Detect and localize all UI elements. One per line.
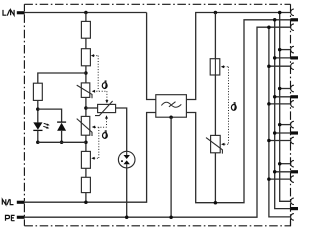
wire contact group D L [280,124,291,126]
label PE [6,215,15,220]
wire fuse to V4 [214,75,216,135]
wire V3 to spark gap [116,108,127,151]
socket contact A1 L (arc) [291,9,294,16]
plug contact E2 (blade) [290,170,298,173]
filter U1 (mains filter) [156,95,187,118]
theta symbol 2 [103,131,108,139]
fuse F2 (thermal disconnector) [210,59,220,75]
arrow into V3 bottom [105,115,108,118]
node V4-N out [214,201,218,205]
socket contact out L (arc) [291,198,294,205]
terminal PE [17,216,25,219]
node B (chain-V3) [84,106,88,110]
wire contact group D PE [269,140,291,142]
thermal linkage theta3 (fuse,V4) [224,67,228,144]
node E PE [267,177,271,181]
node spark gap-PE [125,215,129,219]
wire LED branch bottom to node C [38,141,86,143]
enclosure dash-dot border bottom [24,225,284,227]
wire R2-V1 [85,66,87,83]
arrow into R2 [91,54,94,57]
wire contact group B N [275,57,291,59]
wire node B to V3 [86,107,98,109]
node L-fuse branch [214,11,218,15]
arrow into V2 [92,126,95,129]
wire chain top [85,13,87,22]
socket contact C1 (arc) [291,85,294,92]
wire R3-R4 [85,168,87,177]
node L/N-chain [84,11,88,15]
theta symbol 3 [231,103,236,111]
arrow into fuse [221,65,224,68]
wire riser to filter top-left [147,13,156,100]
diode D2 (antiparallel) [57,122,66,131]
resistor R5 (LED series) [33,83,42,100]
wire contact group D N [275,132,291,134]
node E N [273,170,277,174]
node E L [278,162,282,166]
wire spark gap to PE [126,168,128,217]
node B L [278,48,282,52]
socket contact A3 PE (arc) [291,24,294,31]
wire contact group B L [280,49,291,51]
node C (chain-LED branch) [84,141,88,145]
resistor R2 (thermally fused) [81,49,90,66]
wire contact group B PE [269,65,291,67]
node C L [278,87,282,91]
enclosure dash-dot border top [24,3,290,5]
wire diode to bottom line [61,131,63,143]
node C PE [267,102,271,106]
plug contact C2 (blade) [290,95,298,98]
theta symbol 1 [102,81,107,89]
socket contact E1 (arc) [291,160,294,167]
node A (chain-left branch) [84,71,88,75]
socket contact E3 (arc) [291,176,294,183]
wire N/L to filter bottom-left [25,113,156,203]
wire contact group E N [275,171,291,173]
node PE bus top [267,25,271,29]
wire PE to contact A3 [25,27,291,217]
wire contact group C PE [269,103,291,105]
socket contact D1 (arc) [291,121,294,128]
wire contact group C L [280,88,291,90]
plug contact out N (blade) [290,207,298,210]
wire contact group C N [275,96,291,98]
node chain-N/L [84,200,88,204]
wire contact group E PE [269,178,291,180]
varistor V4 [206,135,222,153]
node N bus top [273,18,277,22]
node L bus top [278,11,282,15]
enclosure border bottom-right corner [285,221,291,226]
varistor V2 [77,116,92,136]
plug contact D2 (blade) [290,131,298,134]
wire V1-V2 [85,97,87,116]
thermal linkage theta1 (R2,V1,V3-top) [94,56,107,101]
enclosure dash-dot border right (runs through plug contacts) [290,4,292,226]
node B N [273,56,277,60]
wire R1-R2 [85,38,87,49]
label N/L [2,199,13,205]
node LED bottom [36,141,40,145]
node filter tap-PE [169,215,173,219]
label L/N [3,10,14,16]
spark gap F1 (gas discharge tube) [118,151,135,168]
resistor R3 [81,151,90,168]
wire node D to diode [38,109,62,122]
node diode bottom [60,141,64,145]
N distribution bus [275,20,291,209]
wire filter top-right to L out [186,13,291,100]
node C N [273,95,277,99]
arrow into R3 [91,157,94,160]
wire V4 to N out [214,153,216,203]
wire L to fuse [214,13,216,59]
terminal N/L [17,201,25,204]
node D PE [267,139,271,143]
socket contact B1 (arc) [291,46,294,53]
L distribution bus [280,13,291,202]
wire node A to R5 [38,73,86,83]
terminal L/N [17,11,25,14]
plug contact B2 (blade) [290,56,298,59]
wire V2-R3 [85,135,87,151]
resistor R1 [81,21,90,38]
wire L/N top [25,12,147,14]
plug contact A2 N (blade) [290,18,298,21]
wire filter bottom-right to N out [186,20,291,203]
arrow into V1 [92,90,95,93]
PE distribution bus [269,27,291,217]
node D (LED/diode top) [36,107,40,111]
socket contact out PE (arc) [291,214,294,221]
wire R5 to LED [37,100,39,122]
node filter center tap [169,115,173,119]
socket contact B3 (arc) [291,63,294,70]
node B PE [267,64,271,68]
wire R4 to N/L [85,193,87,203]
LED D1 with light arrows [33,122,49,130]
arrow into V3 top [105,100,108,103]
node D N [273,131,277,135]
varistor V1 [77,83,92,98]
wire LED to bottom line [37,130,39,142]
socket contact C3 (arc) [291,101,294,108]
enclosure dash-dot border left [23,4,25,226]
wire contact group E L [280,163,291,165]
wire filter tap to PE [170,117,172,217]
node D L [278,123,282,127]
resistor R4 [81,177,90,192]
socket contact D3 (arc) [291,137,294,144]
arrow into V4 [221,143,224,146]
varistor V3 (horizontal) [95,101,116,116]
thermal linkage theta2 (V3-bottom,V2,R3) [94,119,106,159]
